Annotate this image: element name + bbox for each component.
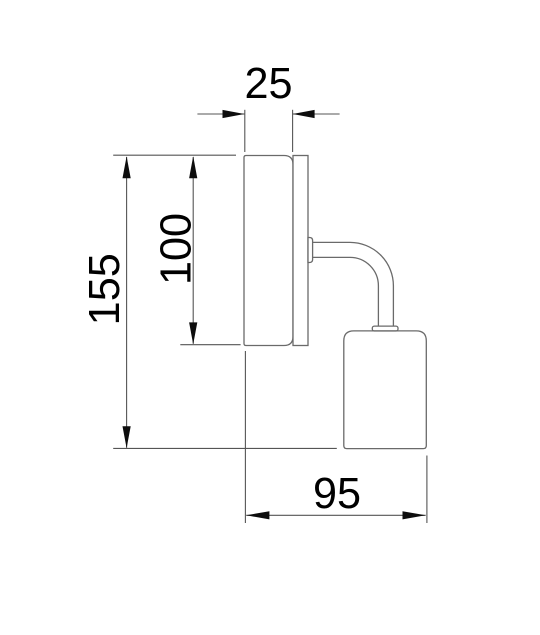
dim 155: top arrowhead (points up) xyxy=(123,156,131,178)
wall plate (side view, rounded right corners) xyxy=(244,156,293,346)
svg-text:25: 25 xyxy=(244,60,292,108)
dim 95: dimension line xyxy=(246,514,426,516)
dim 25: right leader line xyxy=(293,113,340,115)
dim 95: right extension line xyxy=(426,456,428,524)
dim 95: left extension line xyxy=(244,351,246,523)
dim 100: bottom arrowhead (points down) xyxy=(189,322,197,344)
dim 25: top extension line over fixture (shared by 155/100) xyxy=(113,154,236,156)
dim 25: left extension line xyxy=(244,110,246,152)
dim 100: dimension line xyxy=(192,157,194,344)
arm bracket xyxy=(308,238,313,263)
mounting plate (against wall) xyxy=(293,156,308,346)
dim 155: bottom extension line (baseline) xyxy=(113,447,337,449)
dim 25: right extension line xyxy=(292,110,294,152)
dim 100: bottom extension line xyxy=(180,344,240,346)
dim 95: right arrowhead (points right) xyxy=(403,511,426,519)
dim 25: right arrowhead (points left) xyxy=(293,110,315,118)
dim 155: bottom arrowhead (points down) xyxy=(123,426,131,448)
svg-text:100: 100 xyxy=(153,213,201,285)
dim 100: top arrowhead (points up) xyxy=(189,156,197,178)
dim 25: left leader line xyxy=(197,113,244,115)
svg-text:95: 95 xyxy=(313,470,361,518)
dim 25: left arrowhead (points right) xyxy=(223,110,245,118)
dim 155: dimension line xyxy=(126,157,128,448)
svg-text:155: 155 xyxy=(81,253,129,325)
collar at shade top xyxy=(372,326,398,331)
dim 95: left arrowhead (points left) xyxy=(246,511,269,519)
arm tube inner edge xyxy=(313,257,379,326)
lamp shade (cylinder) xyxy=(344,331,427,449)
arm tube outer edge xyxy=(313,242,394,326)
